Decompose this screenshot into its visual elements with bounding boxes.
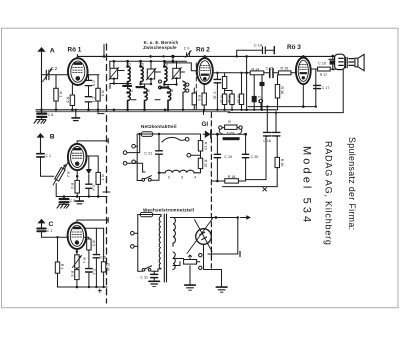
tube Rö3 stubs: [302, 56, 304, 106]
svg-text:R 16: R 16: [106, 263, 110, 271]
dots col3: [163, 83, 178, 111]
resistor R18: [211, 175, 245, 183]
svg-text:C 6: C 6: [92, 81, 96, 87]
svg-text:4: 4: [131, 89, 133, 93]
capacitor C1 channel C: [37, 229, 68, 238]
C18 column left: [264, 107, 272, 180]
svg-text:R 14: R 14: [252, 67, 260, 71]
svg-text:9: 9: [172, 89, 174, 93]
tube B top cap wire: [77, 139, 108, 144]
resistor R15: [278, 67, 291, 75]
svg-text:C 4: C 4: [92, 269, 96, 275]
svg-text:R 17: R 17: [320, 73, 328, 77]
netz circle top: [185, 138, 189, 142]
wire pot down to ground: [204, 244, 222, 286]
ground C31: [149, 281, 160, 286]
netz bottom line: [137, 173, 159, 181]
svg-text:R: R: [228, 120, 231, 124]
power terminal circles: [131, 231, 138, 248]
resistor R9 column: [96, 75, 105, 110]
resistor R19: [198, 141, 207, 151]
svg-text:C 14: C 14: [254, 43, 262, 47]
svg-text:C 18: C 18: [263, 139, 271, 143]
capacitor C16: [318, 56, 336, 69]
capacitor C2 (antenna trimmer): [43, 69, 52, 82]
power fuse: [138, 212, 158, 216]
filter sub-bus: [110, 60, 187, 62]
svg-text:C 2: C 2: [51, 66, 58, 71]
svg-text:C: C: [49, 221, 54, 228]
trimmer cap 3: [172, 68, 182, 85]
svg-text:R 19: R 19: [203, 142, 207, 150]
switch contact circles filter: [159, 80, 189, 92]
anode wire row y72.8: [213, 71, 297, 73]
resistor R3: [70, 170, 79, 196]
coil L4 small: [183, 81, 185, 110]
svg-text:C 21: C 21: [144, 151, 152, 155]
svg-text:6: 6: [148, 89, 150, 93]
pot terminal circles: [199, 254, 202, 270]
junction dots bus A: [40, 109, 99, 112]
svg-text:Rö 1: Rö 1: [68, 46, 82, 53]
svg-text:R 1: R 1: [60, 264, 64, 270]
transformer core: [164, 214, 166, 282]
stub x104: [103, 45, 105, 57]
netz right vertical: [200, 134, 202, 173]
resistor R14: [250, 67, 264, 75]
svg-text:A: A: [50, 47, 55, 54]
capacitor C4 channel C: [86, 269, 96, 275]
link row1 col1: [110, 84, 131, 89]
netz switch: [142, 176, 152, 182]
coil L2 upper: [141, 61, 144, 84]
bus C: [58, 286, 108, 288]
svg-text:R 16: R 16: [280, 159, 284, 167]
svg-text:Rö 3: Rö 3: [287, 44, 301, 51]
svg-text:R 6: R 6: [70, 271, 74, 277]
svg-text:8: 8: [166, 63, 168, 67]
column x277.5 R16a: [275, 75, 284, 110]
wire anode top C: [84, 227, 104, 229]
capacitor C8 channel B: [60, 197, 76, 205]
link row1 col3: [164, 85, 176, 89]
link row1 col2: [141, 84, 151, 89]
antenna C: [37, 219, 45, 228]
resistor R16b: [275, 157, 284, 186]
dashed divider left of coil box: [106, 44, 108, 303]
column x262 below R14: [260, 75, 265, 110]
plus mark bus C: [98, 289, 101, 292]
vertical x219.8: [216, 134, 218, 181]
capacitor C4a: [85, 97, 96, 103]
plus crossing divider y254: [210, 251, 212, 257]
tube Rö1: [68, 58, 88, 85]
line y254: [208, 252, 240, 257]
ground heater mid: [185, 266, 196, 290]
svg-text:5: 5: [142, 63, 144, 67]
svg-text:D 65: D 65: [227, 132, 234, 136]
svg-text:R 20: R 20: [203, 160, 207, 168]
output transformer: [335, 54, 345, 69]
resistor R5 column: [84, 237, 95, 287]
tube Rö2 top stub: [204, 56, 206, 58]
output line dot at divider: [215, 216, 218, 219]
dots col2: [139, 83, 166, 111]
filter link segments: [118, 71, 185, 100]
tube Rö1 top stub: [76, 55, 78, 59]
dots on diode line: [216, 133, 247, 136]
bottom line y186.6: [223, 186, 278, 188]
capacitor C6 column: [85, 75, 95, 110]
C18 column right: [263, 113, 280, 158]
svg-text:R 1: R 1: [58, 92, 62, 98]
svg-text:3: 3: [129, 63, 131, 67]
resistor R1: [54, 75, 63, 110]
rectifier tube: [187, 219, 213, 254]
filter vertical feed from bus: [110, 56, 177, 69]
capacitor C6 column C: [93, 228, 106, 287]
resistor in filter right: [192, 88, 196, 110]
netz circle mid: [187, 153, 201, 157]
power bottom line: [138, 270, 158, 272]
svg-text:R 4: R 4: [82, 258, 86, 264]
capacitor C10: [213, 73, 221, 110]
svg-text:C 19: C 19: [224, 155, 232, 159]
svg-text:R 18: R 18: [228, 175, 236, 179]
anode wire right of tube B: [87, 155, 99, 157]
grid wire Rö2 to filter: [165, 63, 197, 71]
heater winding: [173, 252, 175, 270]
Gl stub: [203, 110, 205, 115]
svg-text:C 16: C 16: [318, 61, 326, 65]
ground hatch channel B: [57, 204, 69, 208]
trimmer C9 on bus: [184, 46, 191, 57]
svg-text:C 8: C 8: [70, 199, 76, 203]
svg-text:Gl: Gl: [202, 121, 209, 128]
resistor R20: [198, 158, 207, 168]
filter sub-bus dots: [113, 60, 175, 63]
bottom line y179.6: [246, 179, 266, 181]
tube C: [68, 223, 87, 249]
svg-text:Zwischenspule: Zwischenspule: [143, 45, 177, 50]
filter tiny digits: [129, 63, 174, 93]
svg-text:C 4: C 4: [92, 97, 96, 103]
svg-text:2 3 4: 2 3 4: [168, 175, 201, 179]
svg-text:R 2: R 2: [66, 172, 70, 178]
svg-text:R 9: R 9: [100, 91, 104, 97]
coil L3 upper: [164, 61, 167, 84]
resistor R10 upper: [222, 73, 226, 94]
bus dots right part: [203, 109, 263, 112]
svg-text:Wechselstromnetzteil: Wechselstromnetzteil: [143, 207, 194, 212]
antenna A: [37, 43, 45, 111]
svg-text:Model 534: Model 534: [301, 146, 313, 225]
netz left vertical: [136, 134, 138, 181]
capacitor C14 branch: [237, 43, 275, 56]
svg-text:C 31: C 31: [140, 275, 148, 279]
netz dots: [158, 133, 161, 174]
coil L1 lower: [128, 89, 131, 110]
svg-text:C 4: C 4: [92, 185, 96, 191]
resistor R1 channel C: [55, 236, 64, 287]
resistor R10 lower: [220, 94, 227, 110]
line y106.6: [248, 106, 316, 108]
output right vertical: [237, 218, 239, 255]
svg-text:R 3: R 3: [70, 183, 74, 189]
filter extra dots: [113, 65, 185, 111]
svg-text:R 16: R 16: [280, 87, 284, 95]
svg-text:RADAG AG, Kilchberg: RADAG AG, Kilchberg: [324, 141, 334, 246]
vertical x245.6: [245, 134, 247, 179]
terminal wires to netz box: [127, 134, 145, 172]
capacitor C17: [314, 85, 330, 90]
svg-text:C 9: C 9: [184, 46, 190, 50]
potentiometer R4 below tube C: [73, 249, 86, 287]
wire pot to grid: [65, 161, 69, 169]
resistor column x103.6 C: [101, 228, 110, 287]
dots lines right: [266, 68, 334, 114]
netz coil bottom: [159, 170, 201, 173]
anode wire to R17 node: [311, 68, 316, 70]
netz fuse: [141, 132, 153, 137]
svg-text:R 10: R 10: [220, 96, 224, 104]
tube B: [68, 144, 87, 170]
svg-text:R 5: R 5: [91, 241, 95, 247]
cathode resistor below Rö1: [66, 85, 75, 110]
top bus: [77, 55, 335, 57]
wire transformer down: [342, 70, 344, 113]
x mark: [263, 188, 267, 191]
dot netz top left: [139, 133, 141, 135]
dashed segment right of filter: [195, 63, 197, 110]
svg-text:Rö 2: Rö 2: [196, 47, 210, 54]
secondary top line: [173, 217, 238, 219]
svg-text:R 7: R 7: [101, 175, 105, 181]
tube Rö3: [296, 58, 311, 85]
svg-text:C 8: C 8: [48, 113, 54, 117]
netz terminal circles: [132, 144, 137, 163]
svg-text:R 13: R 13: [237, 96, 241, 104]
svg-text:C 1: C 1: [47, 229, 53, 233]
rectifier diode: [203, 130, 246, 138]
dot output vertical: [237, 216, 240, 219]
svg-text:C 10: C 10: [213, 92, 217, 100]
svg-text:Spulensatz der Firma:: Spulensatz der Firma:: [347, 137, 357, 230]
heater pot: [173, 255, 200, 266]
potentiometer R2: [53, 165, 70, 186]
capacitor C20: [242, 154, 258, 159]
svg-text:C 1: C 1: [45, 154, 51, 158]
svg-text:B: B: [50, 134, 55, 141]
netz top line: [137, 133, 200, 135]
dashed divider Gl: [210, 113, 212, 269]
cathode resistor below Rö2: [197, 84, 206, 110]
resistor R13: [237, 73, 244, 110]
capacitor C8 channel A: [37, 110, 53, 120]
capacitor C15: [266, 67, 274, 78]
ground rectifier: [216, 287, 227, 292]
resistor R11: [225, 91, 235, 110]
choke bar: [223, 137, 240, 140]
capacitor C13 solid: [252, 73, 262, 110]
filter dark core bars: [122, 85, 169, 89]
capacitor C19: [214, 154, 232, 159]
trimmer cap 1: [109, 68, 119, 84]
output arrowhead: [241, 215, 252, 219]
svg-text:C 15: C 15: [266, 67, 274, 71]
tick crossing divider y192: [103, 191, 110, 193]
power switch: [142, 266, 151, 271]
antenna B: [37, 133, 45, 153]
ground T channel A: [72, 110, 80, 121]
diode detector B: [86, 156, 96, 197]
secondary winding: [170, 218, 175, 247]
bus C dots: [76, 286, 105, 289]
resistor R7: [96, 156, 105, 197]
bus A bottom: [36, 109, 278, 111]
coil L2 lower: [145, 89, 148, 110]
speaker: [345, 54, 364, 70]
dot R14 node: [216, 72, 255, 75]
svg-text:C 17: C 17: [322, 86, 330, 90]
tube C top cap wire: [77, 218, 108, 223]
dot col1: [113, 82, 129, 111]
resistor R17: [316, 67, 335, 77]
bus A lower parallel: [36, 111, 230, 113]
long vertical x246.6: [246, 56, 248, 109]
wire antenna to C2 and grid: [42, 74, 69, 76]
coil L3 lower: [168, 89, 171, 110]
svg-text:Netzkontaktteil: Netzkontaktteil: [141, 124, 177, 129]
stub below bus x98: [98, 110, 104, 114]
svg-text:R 15: R 15: [281, 67, 289, 71]
ground T channel B: [76, 197, 84, 204]
primary coil: [158, 215, 161, 272]
terminal circle x261: [259, 99, 262, 110]
svg-text:C 20: C 20: [251, 155, 259, 159]
capacitor C1 channel B: [37, 154, 54, 177]
wire grid row right of tube: [88, 74, 100, 76]
netz arc wire: [162, 137, 185, 142]
line y112.6: [228, 112, 343, 114]
coil box terminal circles: [123, 151, 127, 165]
vertical R17 node down: [315, 69, 317, 107]
lamp with leads: [219, 120, 243, 134]
bus B dots: [63, 195, 100, 198]
pot B lower lead: [56, 184, 57, 197]
ground hatch channel A: [34, 120, 46, 124]
svg-text:R 8: R 8: [197, 95, 201, 101]
netz center vertical C21: [144, 134, 162, 173]
power left vertical: [137, 215, 139, 272]
trimmer cap 2: [146, 68, 156, 84]
capacitor C31: [140, 271, 157, 281]
junction dots top bus: [103, 55, 334, 59]
tube Rö2: [197, 58, 213, 84]
svg-text:R 11: R 11: [227, 96, 231, 103]
coil L1 upper: [128, 61, 131, 83]
bus B: [58, 196, 108, 198]
resistor R6: [70, 270, 79, 280]
svg-text:R 5: R 5: [66, 97, 70, 103]
